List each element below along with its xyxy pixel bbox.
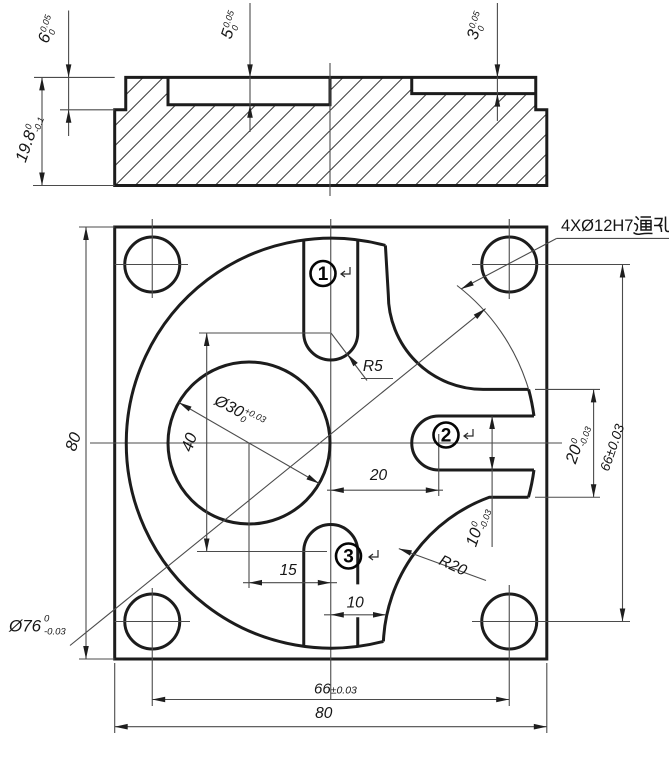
text 80 left <box>62 429 85 453</box>
dim 15 <box>243 582 337 584</box>
text 20-0.03 right <box>562 422 593 467</box>
text 66 right <box>597 422 627 473</box>
svg-text:-0.03: -0.03 <box>44 627 66 638</box>
text phi76 <box>8 614 66 638</box>
text 6+0.05 <box>35 12 62 45</box>
dim 20 slot2 <box>327 489 443 491</box>
boss arc right between cutout and slot2 <box>529 389 534 416</box>
text 19.8 <box>12 113 46 165</box>
phi76 leader <box>70 309 486 646</box>
pocket slot2 in section <box>412 77 536 93</box>
svg-text:R5: R5 <box>363 358 383 375</box>
slot 1 <box>304 240 358 360</box>
dim 5 leader <box>249 3 251 132</box>
section outline <box>115 77 547 185</box>
boss phi76 outline with cutouts <box>126 238 385 648</box>
plan square <box>115 227 547 659</box>
text 40 <box>178 430 201 454</box>
label 1 <box>311 261 336 286</box>
corner holes 4xphi12 <box>125 237 180 292</box>
dim 66 right <box>622 265 624 622</box>
phi30 circle <box>168 362 330 524</box>
plate centerlines <box>90 442 562 444</box>
R20 leader <box>399 549 486 581</box>
dim 40 <box>206 333 208 552</box>
svg-text:4XØ12H7: 4XØ12H7 <box>561 217 633 235</box>
svg-text:15: 15 <box>280 562 298 579</box>
pocket phi30 in section <box>168 77 330 104</box>
svg-text:2: 2 <box>441 426 452 447</box>
R5 leader <box>331 333 367 381</box>
label 2 <box>434 423 459 448</box>
section hatch <box>115 77 547 185</box>
svg-text:3: 3 <box>343 547 354 568</box>
svg-text:1: 1 <box>318 264 329 285</box>
top-right cutout <box>385 245 528 389</box>
label 3 <box>336 544 361 569</box>
dim 6 line <box>68 11 70 137</box>
dim 66 bottom <box>152 699 509 701</box>
dim 80 left <box>85 227 87 659</box>
dim 3 leader <box>496 3 498 121</box>
4x phi12 leader <box>461 238 557 289</box>
slot 2 <box>412 416 534 470</box>
text 3+0.05 <box>463 9 490 42</box>
text 10-0.03 slot2 <box>463 505 494 549</box>
text R20 <box>436 552 469 580</box>
svg-text:20: 20 <box>369 467 388 484</box>
slot 3 <box>304 525 358 647</box>
dim 10 slot2 width <box>491 416 493 547</box>
tab bottom edge + R20 cutout arc <box>383 497 528 641</box>
hole centerlines <box>115 264 188 266</box>
svg-text:0: 0 <box>44 614 50 625</box>
section centerline <box>329 63 331 196</box>
text 5+0.05 <box>218 8 245 41</box>
dim 80 bottom <box>115 726 547 728</box>
dim 19.8 lines <box>34 76 115 78</box>
svg-text:Ø76: Ø76 <box>8 617 42 636</box>
phi30 leader <box>179 403 319 484</box>
dim 20 tab right <box>593 389 595 497</box>
thin phi76 arc in top-right cutout <box>457 286 529 390</box>
text phi30 <box>210 391 267 433</box>
CJK tong (through) <box>634 217 653 235</box>
CJK kong (hole) <box>654 217 669 233</box>
dim 10 slot3 <box>324 614 386 616</box>
svg-text:10: 10 <box>347 595 365 612</box>
svg-text:80: 80 <box>315 705 333 722</box>
